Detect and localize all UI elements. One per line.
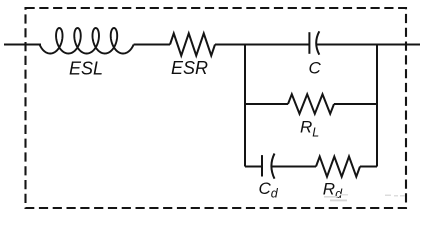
left rail <box>244 44 246 167</box>
middle branch wire left <box>245 103 288 105</box>
capacitor Cd left plate <box>261 155 263 176</box>
resistor RL <box>288 94 334 114</box>
wire ESL to ESR <box>134 44 170 46</box>
bottom branch wire left <box>245 166 262 168</box>
capacitor C left plate <box>308 32 310 54</box>
svg-text:C: C <box>309 59 322 78</box>
inductor ESL <box>40 28 134 54</box>
capacitor Cd right curved plate <box>271 154 274 179</box>
svg-text:ESL: ESL <box>69 59 103 79</box>
bottom branch wire middle <box>272 166 316 168</box>
wire ESR to node A <box>215 44 309 46</box>
resistor ESR <box>170 33 215 55</box>
right rail <box>376 44 378 167</box>
middle branch wire right <box>334 103 377 105</box>
svg-text:ESR: ESR <box>171 58 208 78</box>
wire left entry <box>4 44 41 46</box>
bottom branch wire right <box>360 166 377 168</box>
resistor Rd <box>316 157 360 177</box>
watermark remnant <box>324 194 405 201</box>
wire C to node B and exit right <box>317 44 420 46</box>
capacitor C right curved plate <box>316 31 319 54</box>
dashed boundary box <box>26 8 407 208</box>
